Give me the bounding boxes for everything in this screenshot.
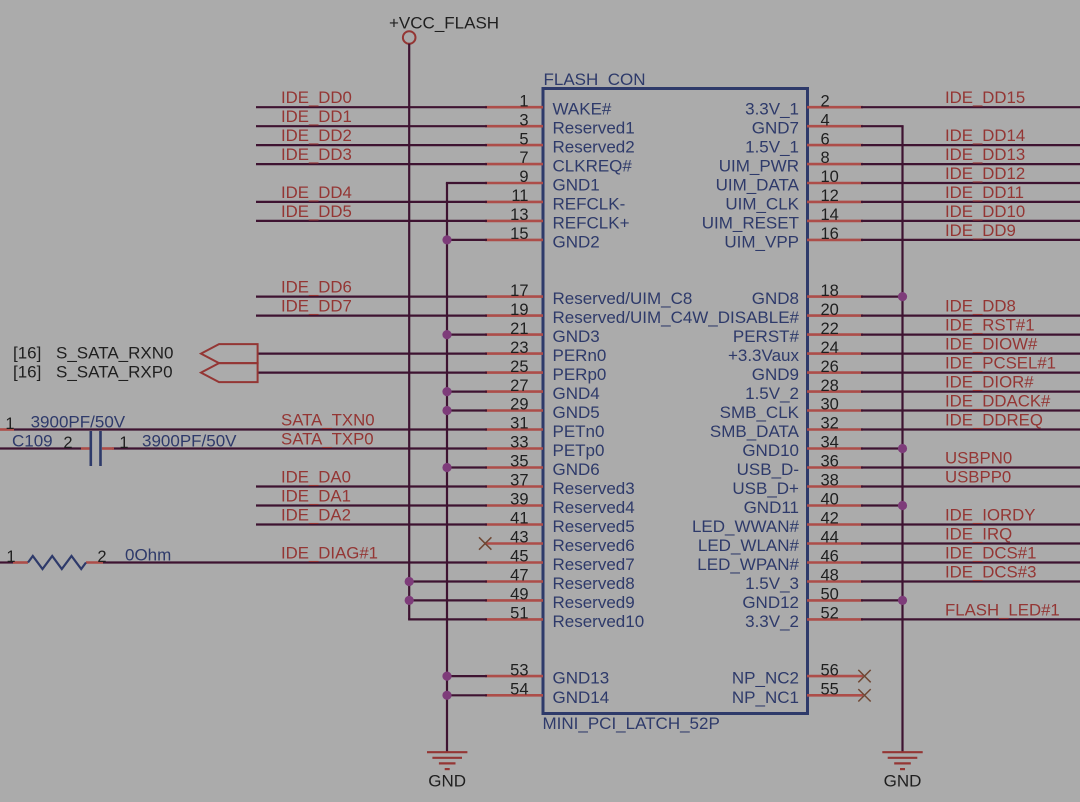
svg-text:Reserved9: Reserved9 xyxy=(553,593,635,612)
svg-text:43: 43 xyxy=(510,529,528,547)
svg-text:41: 41 xyxy=(510,510,528,528)
wire USBPN0 (pin 36) xyxy=(861,466,1080,468)
svg-text:10: 10 xyxy=(821,168,839,186)
svg-text:IDE_DD10: IDE_DD10 xyxy=(945,202,1025,221)
wire +VCC_FLASH vertical bus xyxy=(408,44,410,620)
svg-text:Reserved1: Reserved1 xyxy=(553,119,635,138)
svg-text:IDE_DD6: IDE_DD6 xyxy=(281,278,352,297)
svg-text:3900PF/50V: 3900PF/50V xyxy=(142,431,237,450)
pin 18 GND8 xyxy=(752,282,863,308)
svg-text:REFCLK+: REFCLK+ xyxy=(553,213,630,232)
svg-text:3900PF/50V: 3900PF/50V xyxy=(31,412,126,431)
svg-text:IDE_DDREQ: IDE_DDREQ xyxy=(945,411,1043,430)
pin 41 Reserved5 xyxy=(485,510,635,536)
pin 45 Reserved7 xyxy=(485,548,635,574)
pin 30 SMB_CLK xyxy=(720,396,863,422)
pin 25 PERp0 xyxy=(485,358,606,384)
svg-text:IDE_DD7: IDE_DD7 xyxy=(281,297,352,316)
svg-text:GND6: GND6 xyxy=(553,460,600,479)
wire IDE_DD2 (pin 5) xyxy=(256,144,487,146)
svg-text:PERn0: PERn0 xyxy=(553,346,607,365)
svg-text:IDE_PCSEL#1: IDE_PCSEL#1 xyxy=(945,354,1056,373)
wire IDE_PCSEL#1 (pin 26) xyxy=(861,372,1080,374)
wire IDE_DD14 (pin 6) xyxy=(861,144,1080,146)
svg-text:Reserved/UIM_C8: Reserved/UIM_C8 xyxy=(553,289,693,308)
svg-text:33: 33 xyxy=(510,434,528,452)
svg-text:Reserved5: Reserved5 xyxy=(553,517,635,536)
wire IDE_DA0 (pin 37) xyxy=(256,485,487,487)
svg-text:Reserved8: Reserved8 xyxy=(553,574,635,593)
off-page connector S_SATA_RXN0 xyxy=(13,344,258,364)
svg-text:9: 9 xyxy=(519,168,528,186)
connector FLASH_CON box outline xyxy=(543,89,808,714)
svg-text:UIM_VPP: UIM_VPP xyxy=(724,232,799,251)
wire GND vertical bus (right) xyxy=(901,126,903,752)
pin 9 GND1 xyxy=(485,168,600,194)
svg-text:S_SATA_RXP0: S_SATA_RXP0 xyxy=(56,363,173,382)
wire S_SATA_RX (pin 25) xyxy=(258,372,487,374)
wire IDE_DD12 (pin 10) xyxy=(861,182,1080,184)
svg-text:17: 17 xyxy=(510,282,528,300)
pin 11 REFCLK- xyxy=(485,187,625,213)
svg-text:GND13: GND13 xyxy=(553,669,610,688)
svg-text:CLKREQ#: CLKREQ# xyxy=(553,157,633,176)
svg-text:38: 38 xyxy=(821,472,839,490)
wire IDE_DD11 (pin 12) xyxy=(861,201,1080,203)
wire IDE_DDREQ (pin 32) xyxy=(861,428,1080,430)
svg-text:Reserved2: Reserved2 xyxy=(553,138,635,157)
wire GND bus to pin 53 xyxy=(447,675,487,677)
junction dot pin 15 / GND bus xyxy=(442,235,451,244)
svg-text:IDE_DD14: IDE_DD14 xyxy=(945,126,1025,145)
svg-text:SATA_TXP0: SATA_TXP0 xyxy=(281,430,374,449)
wire GND1 pin 9 corner xyxy=(446,182,487,184)
wire GND vertical bus (left) xyxy=(446,183,448,752)
svg-text:37: 37 xyxy=(510,472,528,490)
svg-text:USBPP0: USBPP0 xyxy=(945,468,1011,487)
svg-text:PETn0: PETn0 xyxy=(553,422,605,441)
pin 44 LED_WLAN# xyxy=(698,529,863,555)
svg-text:GND12: GND12 xyxy=(742,593,799,612)
svg-text:16: 16 xyxy=(821,225,839,243)
wire IDE_DD9 (pin 16) xyxy=(861,239,1080,241)
junction dot pin 47 / VCC bus xyxy=(405,577,414,586)
junction dot pin 18 / GND bus right xyxy=(898,292,907,301)
pin 47 Reserved8 xyxy=(485,567,635,593)
svg-text:IDE_DA1: IDE_DA1 xyxy=(281,487,351,506)
svg-text:GND10: GND10 xyxy=(742,441,799,460)
svg-text:49: 49 xyxy=(510,586,528,604)
wire S_SATA_RX (pin 23) xyxy=(258,353,487,355)
svg-text:IDE_DCS#3: IDE_DCS#3 xyxy=(945,563,1036,582)
wire GND bus to pin 29 xyxy=(447,409,487,411)
svg-text:23: 23 xyxy=(510,339,528,357)
wire IDE_DD0 (pin 1) xyxy=(256,106,487,108)
svg-text:LED_WPAN#: LED_WPAN# xyxy=(697,555,799,574)
svg-text:3.3V_2: 3.3V_2 xyxy=(745,612,799,631)
svg-text:51: 51 xyxy=(510,605,528,623)
svg-text:UIM_RESET: UIM_RESET xyxy=(702,213,799,232)
svg-text:2: 2 xyxy=(821,92,830,110)
pin 10 UIM_DATA xyxy=(716,168,863,194)
pin 6 1.5V_1 xyxy=(745,130,863,156)
svg-text:14: 14 xyxy=(821,206,839,224)
svg-text:WAKE#: WAKE# xyxy=(553,100,612,119)
pin 27 GND4 xyxy=(485,377,600,403)
svg-text:IDE_IRQ: IDE_IRQ xyxy=(945,525,1012,544)
junction dot pin 21 / GND bus xyxy=(442,330,451,339)
ground GND (left) xyxy=(427,752,467,790)
svg-text:Reserved10: Reserved10 xyxy=(553,612,645,631)
svg-text:1.5V_2: 1.5V_2 xyxy=(745,384,799,403)
pin 31 PETn0 xyxy=(485,415,604,441)
junction dot pin 34 / GND bus right xyxy=(898,444,907,453)
pin 5 Reserved2 xyxy=(485,130,635,156)
pin 19 Reserved/UIM_C4 xyxy=(485,301,692,327)
svg-text:IDE_DIAG#1: IDE_DIAG#1 xyxy=(281,544,378,563)
svg-text:FLASH_CON: FLASH_CON xyxy=(544,70,646,89)
svg-text:IDE_RST#1: IDE_RST#1 xyxy=(945,316,1035,335)
svg-text:IDE_DD1: IDE_DD1 xyxy=(281,107,352,126)
pin 52 3.3V_2 xyxy=(745,605,863,631)
pin 21 GND3 xyxy=(485,320,600,346)
pin 33 PETp0 xyxy=(485,434,604,460)
svg-text:46: 46 xyxy=(821,548,839,566)
wire IDE_DD3 (pin 7) xyxy=(256,163,487,165)
svg-text:45: 45 xyxy=(510,548,528,566)
svg-text:GND9: GND9 xyxy=(752,365,799,384)
wire IDE_DD4 (pin 11) xyxy=(256,201,487,203)
pin 40 GND11 xyxy=(744,491,863,517)
wire pin 50 to GND bus xyxy=(861,599,903,601)
svg-text:GND: GND xyxy=(884,772,922,791)
svg-text:GND8: GND8 xyxy=(752,289,799,308)
svg-text:22: 22 xyxy=(821,320,839,338)
resistor 0Ohm xyxy=(6,545,171,569)
pin 15 GND2 xyxy=(485,225,600,251)
svg-text:GND11: GND11 xyxy=(744,498,799,517)
pin 38 USB_D+ xyxy=(732,472,863,498)
svg-text:+VCC_FLASH: +VCC_FLASH xyxy=(389,13,499,32)
pin 2 3.3V_1 xyxy=(745,92,863,118)
svg-text:1.5V_3: 1.5V_3 xyxy=(745,574,799,593)
svg-text:35: 35 xyxy=(510,453,528,471)
pin 4 GND7 xyxy=(752,111,863,137)
junction dot pin 50 / GND bus right xyxy=(898,596,907,605)
wire IDE_RST#1 (pin 22) xyxy=(861,334,1080,336)
svg-text:USB_D-: USB_D- xyxy=(737,460,799,479)
svg-text:1: 1 xyxy=(119,434,128,452)
svg-text:FLASH_LED#1: FLASH_LED#1 xyxy=(945,600,1060,619)
pin 37 Reserved3 xyxy=(485,472,635,498)
wire IDE_DIAG#1 left of resistor (pin 45) xyxy=(0,561,13,563)
ground GND (right) xyxy=(882,752,922,790)
svg-text:8: 8 xyxy=(821,149,830,167)
power symbol +VCC_FLASH xyxy=(389,13,499,44)
off-page connector S_SATA_RXP0 xyxy=(13,363,258,383)
svg-text:47: 47 xyxy=(510,567,528,585)
wire IDE_DCS#3 (pin 48) xyxy=(861,580,1080,582)
svg-text:IDE_DIOR#: IDE_DIOR# xyxy=(945,373,1034,392)
pin 34 GND10 xyxy=(742,434,863,460)
wire IDE_DIOR# (pin 28) xyxy=(861,391,1080,393)
capacitor C109 3900PF/50V xyxy=(12,431,237,466)
wire VCC bus to pin 47 xyxy=(409,580,487,582)
wire GND bus to pin 21 xyxy=(447,334,487,336)
svg-text:USBPN0: USBPN0 xyxy=(945,449,1012,468)
pin 3 Reserved1 xyxy=(485,111,635,137)
svg-text:IDE_IORDY: IDE_IORDY xyxy=(945,506,1035,525)
svg-text:NP_NC1: NP_NC1 xyxy=(732,688,799,707)
pin 55 NP_NC1 xyxy=(732,681,863,707)
pin 39 Reserved4 xyxy=(485,491,635,517)
svg-text:25: 25 xyxy=(510,358,528,376)
svg-text:PETp0: PETp0 xyxy=(553,441,605,460)
svg-text:29: 29 xyxy=(510,396,528,414)
pin 32 SMB_DATA xyxy=(710,415,863,441)
wire IDE_DD6 (pin 17) xyxy=(256,296,487,298)
svg-text:6: 6 xyxy=(821,130,830,148)
wire IDE_DIOW# (pin 24) xyxy=(861,353,1080,355)
svg-text:IDE_DD3: IDE_DD3 xyxy=(281,145,352,164)
svg-text:IDE_DD5: IDE_DD5 xyxy=(281,202,352,221)
svg-text:2: 2 xyxy=(63,434,72,452)
svg-text:27: 27 xyxy=(510,377,528,395)
svg-text:36: 36 xyxy=(821,453,839,471)
wire IDE_DD15 (pin 2) xyxy=(861,106,1080,108)
svg-text:19: 19 xyxy=(510,301,528,319)
wire GND bus to pin 54 xyxy=(447,694,487,696)
wire IDE_DD13 (pin 8) xyxy=(861,163,1080,165)
svg-text:3: 3 xyxy=(519,111,528,129)
pin 42 LED_WWAN# xyxy=(692,510,863,536)
svg-text:0Ohm: 0Ohm xyxy=(125,545,171,564)
wire IDE_DIAG#1 right of resistor xyxy=(103,561,487,563)
pin 13 REFCLK+ xyxy=(485,206,630,232)
svg-text:1: 1 xyxy=(519,92,528,110)
svg-text:W_DISABLE#: W_DISABLE# xyxy=(692,308,799,327)
svg-text:1.5V_1: 1.5V_1 xyxy=(745,138,799,157)
wire IDE_DD8 (pin 20) xyxy=(861,315,1080,317)
svg-text:IDE_DD2: IDE_DD2 xyxy=(281,126,352,145)
pin 49 Reserved9 xyxy=(485,586,635,612)
pin 24 +3.3Vaux xyxy=(728,339,863,365)
junction dot pin 49 / VCC bus xyxy=(405,596,414,605)
svg-text:GND2: GND2 xyxy=(553,232,600,251)
svg-text:40: 40 xyxy=(821,491,839,509)
wire SATA_TXN0 (pin 31) xyxy=(14,428,487,430)
wire IDE_DD1 (pin 3) xyxy=(256,125,487,127)
no-connect X pin 55 xyxy=(858,689,870,701)
svg-text:GND1: GND1 xyxy=(553,176,600,195)
svg-text:20: 20 xyxy=(821,301,839,319)
wire FLASH_LED#1 (pin 52) xyxy=(861,618,1080,620)
pin 20 W_DISABLE# xyxy=(692,301,863,327)
svg-text:2: 2 xyxy=(97,548,106,566)
no-connect X pin 56 xyxy=(858,670,870,682)
pin 1 WAKE# xyxy=(485,92,612,118)
svg-text:3.3V_1: 3.3V_1 xyxy=(745,100,799,119)
wire pin 34 to GND bus xyxy=(861,447,903,449)
svg-text:LED_WWAN#: LED_WWAN# xyxy=(692,517,800,536)
junction dot pin 54 / GND bus xyxy=(442,691,451,700)
svg-text:IDE_DD9: IDE_DD9 xyxy=(945,221,1016,240)
wire USBPP0 (pin 38) xyxy=(861,485,1080,487)
svg-text:IDE_DDACK#: IDE_DDACK# xyxy=(945,392,1051,411)
svg-text:UIM_DATA: UIM_DATA xyxy=(716,176,800,195)
junction dot pin 35 / GND bus xyxy=(442,463,451,472)
svg-text:7: 7 xyxy=(519,149,528,167)
svg-text:SATA_TXN0: SATA_TXN0 xyxy=(281,411,375,430)
svg-text:32: 32 xyxy=(821,415,839,433)
svg-text:18: 18 xyxy=(821,282,839,300)
wire GND bus to pin 15 xyxy=(447,239,487,241)
svg-text:39: 39 xyxy=(510,491,528,509)
svg-text:Reserved3: Reserved3 xyxy=(553,479,635,498)
svg-text:56: 56 xyxy=(821,661,839,679)
pin 23 PERn0 xyxy=(485,339,606,365)
svg-text:MINI_PCI_LATCH_52P: MINI_PCI_LATCH_52P xyxy=(543,714,720,733)
pin 17 Reserved/UIM_C8 xyxy=(485,282,692,308)
svg-text:IDE_DD0: IDE_DD0 xyxy=(281,88,352,107)
svg-text:21: 21 xyxy=(510,320,528,338)
svg-text:IDE_DD8: IDE_DD8 xyxy=(945,297,1016,316)
wire SATA_TXP0 right of C109 xyxy=(112,447,487,449)
svg-text:31: 31 xyxy=(510,415,528,433)
svg-text:IDE_DA0: IDE_DA0 xyxy=(281,468,351,487)
svg-text:42: 42 xyxy=(821,510,839,528)
junction dot pin 53 / GND bus xyxy=(442,672,451,681)
svg-text:UIM_CLK: UIM_CLK xyxy=(725,194,799,213)
svg-text:S_SATA_RXN0: S_SATA_RXN0 xyxy=(56,344,173,363)
svg-text:44: 44 xyxy=(821,529,839,547)
pin 43 Reserved6 xyxy=(485,529,635,555)
svg-text:SMB_DATA: SMB_DATA xyxy=(710,422,800,441)
pin 7 CLKREQ# xyxy=(485,149,632,175)
pin 50 GND12 xyxy=(742,586,863,612)
svg-text:24: 24 xyxy=(821,339,839,357)
svg-text:48: 48 xyxy=(821,567,839,585)
svg-text:Reserved/UIM_C4: Reserved/UIM_C4 xyxy=(553,308,693,327)
wire IDE_DA2 (pin 41) xyxy=(256,523,487,525)
svg-text:LED_WLAN#: LED_WLAN# xyxy=(698,536,800,555)
svg-text:PERST#: PERST# xyxy=(733,327,800,346)
pin 48 1.5V_3 xyxy=(745,567,863,593)
wire IDE_DDACK# (pin 30) xyxy=(861,409,1080,411)
wire IDE_DCS#1 (pin 46) xyxy=(861,561,1080,563)
pin 51 Reserved10 xyxy=(485,605,644,631)
svg-text:UIM_PWR: UIM_PWR xyxy=(719,157,799,176)
junction dot pin 40 / GND bus right xyxy=(898,501,907,510)
pin 14 UIM_RESET xyxy=(702,206,863,232)
pin 36 USB_D- xyxy=(737,453,863,479)
wire IDE_DD10 (pin 14) xyxy=(861,220,1080,222)
svg-text:28: 28 xyxy=(821,377,839,395)
svg-text:53: 53 xyxy=(510,661,528,679)
svg-text:IDE_DA2: IDE_DA2 xyxy=(281,506,351,525)
svg-text:15: 15 xyxy=(510,225,528,243)
wire IDE_DA1 (pin 39) xyxy=(256,504,487,506)
svg-text:IDE_DD11: IDE_DD11 xyxy=(945,183,1024,202)
wire VCC bus to pin 51 corner xyxy=(408,618,487,620)
svg-text:5: 5 xyxy=(519,130,528,148)
svg-text:GND: GND xyxy=(428,772,466,791)
pin 56 NP_NC2 xyxy=(732,661,863,687)
svg-text:12: 12 xyxy=(821,187,839,205)
svg-text:4: 4 xyxy=(821,111,830,129)
capacitor (off-sheet) pin 1 and value 3900PF/50V xyxy=(0,412,126,433)
wire VCC bus to pin 49 xyxy=(409,599,487,601)
svg-text:PERp0: PERp0 xyxy=(553,365,607,384)
wire pin 40 to GND bus xyxy=(861,504,903,506)
svg-text:GND4: GND4 xyxy=(553,384,600,403)
svg-text:GND3: GND3 xyxy=(553,327,600,346)
svg-text:34: 34 xyxy=(821,434,839,452)
svg-text:13: 13 xyxy=(510,206,528,224)
svg-text:IDE_DD15: IDE_DD15 xyxy=(945,88,1025,107)
svg-text:USB_D+: USB_D+ xyxy=(732,479,799,498)
svg-text:1: 1 xyxy=(6,548,15,566)
pin 29 GND5 xyxy=(485,396,600,422)
pin 54 GND14 xyxy=(485,681,609,707)
pin 53 GND13 xyxy=(485,661,609,687)
pin 12 UIM_CLK xyxy=(725,187,863,213)
svg-text:54: 54 xyxy=(510,681,528,699)
svg-text:[16]: [16] xyxy=(13,344,41,363)
svg-text:Reserved7: Reserved7 xyxy=(553,555,635,574)
wire IDE_IORDY (pin 42) xyxy=(861,523,1080,525)
junction dot pin 29 / GND bus xyxy=(442,406,451,415)
junction dot pin 27 / GND bus xyxy=(442,387,451,396)
svg-text:IDE_DCS#1: IDE_DCS#1 xyxy=(945,544,1036,563)
wire GND bus to pin 35 xyxy=(447,466,487,468)
svg-text:Reserved6: Reserved6 xyxy=(553,536,635,555)
pin 26 GND9 xyxy=(752,358,863,384)
svg-text:11: 11 xyxy=(511,187,528,205)
svg-text:NP_NC2: NP_NC2 xyxy=(732,669,799,688)
svg-text:26: 26 xyxy=(821,358,839,376)
pin 35 GND6 xyxy=(485,453,600,479)
svg-text:Reserved4: Reserved4 xyxy=(553,498,635,517)
wire IDE_DD5 (pin 13) xyxy=(256,220,487,222)
svg-text:IDE_DD4: IDE_DD4 xyxy=(281,183,352,202)
svg-text:SMB_CLK: SMB_CLK xyxy=(720,403,800,422)
svg-text:REFCLK-: REFCLK- xyxy=(553,194,626,213)
svg-text:52: 52 xyxy=(821,605,839,623)
pin 16 UIM_VPP xyxy=(724,225,863,251)
pin 22 PERST# xyxy=(733,320,863,346)
svg-text:30: 30 xyxy=(821,396,839,414)
no-connect X pin 43 xyxy=(479,537,491,549)
svg-text:50: 50 xyxy=(821,586,839,604)
wire IDE_DD7 (pin 19) xyxy=(256,315,487,317)
wire GND bus to pin 27 xyxy=(447,391,487,393)
pin 28 1.5V_2 xyxy=(745,377,863,403)
wire GND7 pin 4 corner xyxy=(861,125,904,127)
svg-text:1: 1 xyxy=(5,415,14,433)
wire IDE_IRQ (pin 44) xyxy=(861,542,1080,544)
svg-text:+3.3Vaux: +3.3Vaux xyxy=(728,346,800,365)
svg-text:GND7: GND7 xyxy=(752,119,799,138)
svg-text:[16]: [16] xyxy=(13,363,41,382)
svg-text:GND5: GND5 xyxy=(553,403,600,422)
svg-text:IDE_DD13: IDE_DD13 xyxy=(945,145,1025,164)
wire pin 18 to GND bus xyxy=(861,296,903,298)
svg-text:55: 55 xyxy=(821,681,839,699)
svg-text:IDE_DIOW#: IDE_DIOW# xyxy=(945,335,1038,354)
wire SATA_TXP0 left of C109 (pin 33) xyxy=(0,447,81,449)
pin 8 UIM_PWR xyxy=(719,149,863,175)
